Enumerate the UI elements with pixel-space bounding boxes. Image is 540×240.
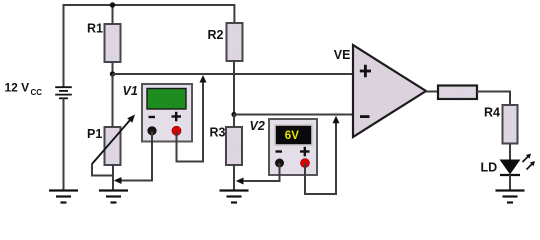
wire output resistor to R4 top <box>477 92 510 106</box>
node B: R1/P1/+input junction <box>110 71 115 76</box>
voltmeter V2 <box>250 119 318 175</box>
node C: R2/R3/-input junction <box>231 112 236 117</box>
ground under LED <box>496 191 525 203</box>
wire battery positive to top bus and down to R2 top <box>64 5 235 87</box>
svg-text:12 V: 12 V <box>5 81 30 95</box>
wire V2 black lead to R3 ground node with arrowhead <box>239 163 280 181</box>
node junction top bus / R1 <box>110 2 115 7</box>
wire top bus node to R1 top <box>112 5 114 24</box>
svg-text:6V: 6V <box>285 130 299 142</box>
resistor R2 <box>208 23 243 61</box>
svg-text:V2: V2 <box>250 119 265 133</box>
svg-text:LD: LD <box>481 161 498 175</box>
LED LD <box>481 154 536 176</box>
op-amp U1 comparator <box>334 45 426 137</box>
wire op-amp output <box>426 91 438 93</box>
wire R4 bottom to LED <box>509 144 511 161</box>
svg-text:R3: R3 <box>210 126 226 140</box>
wire node C down to R3 top <box>233 115 235 128</box>
svg-text:VE: VE <box>334 48 351 62</box>
wire R1 bottom to node B <box>112 62 114 75</box>
resistor output series (unlabeled) <box>438 86 477 100</box>
wire node B down to P1 top <box>112 75 114 128</box>
resistor R4 <box>484 105 518 144</box>
svg-text:R2: R2 <box>208 28 224 42</box>
svg-text:V1: V1 <box>123 84 138 98</box>
resistor R1 <box>87 22 121 63</box>
wire battery negative to ground <box>63 98 65 190</box>
svg-text:CC: CC <box>31 88 43 97</box>
wire LED cathode to ground <box>509 175 511 191</box>
wire noninverting bus from node B to op-amp + input <box>113 73 354 75</box>
resistor R3 <box>210 126 243 166</box>
wire V2 red lead up to - bus with arrowhead <box>305 121 336 194</box>
wire V1 black lead to P1 node with arrowhead <box>117 131 152 181</box>
ground under battery <box>49 191 78 203</box>
wire P1 wiper tail <box>92 164 114 176</box>
wire V1 red lead up to + bus with arrowhead <box>177 80 204 162</box>
ground under R3 <box>220 191 249 203</box>
ground under P1 <box>99 191 128 203</box>
svg-text:R1: R1 <box>87 22 103 36</box>
label 12 Vcc <box>5 81 43 98</box>
wire inverting bus from node C to op-amp - input <box>234 114 354 116</box>
svg-text:R4: R4 <box>484 106 500 120</box>
wire P1 bottom terminal to ground <box>112 165 114 190</box>
svg-text:P1: P1 <box>87 127 102 141</box>
wire R2 bottom to node C <box>233 61 235 115</box>
battery 12V source <box>55 87 72 98</box>
voltmeter V1 <box>123 84 193 142</box>
wire R3 bottom to ground <box>233 165 235 190</box>
potentiometer P1 <box>87 115 135 166</box>
